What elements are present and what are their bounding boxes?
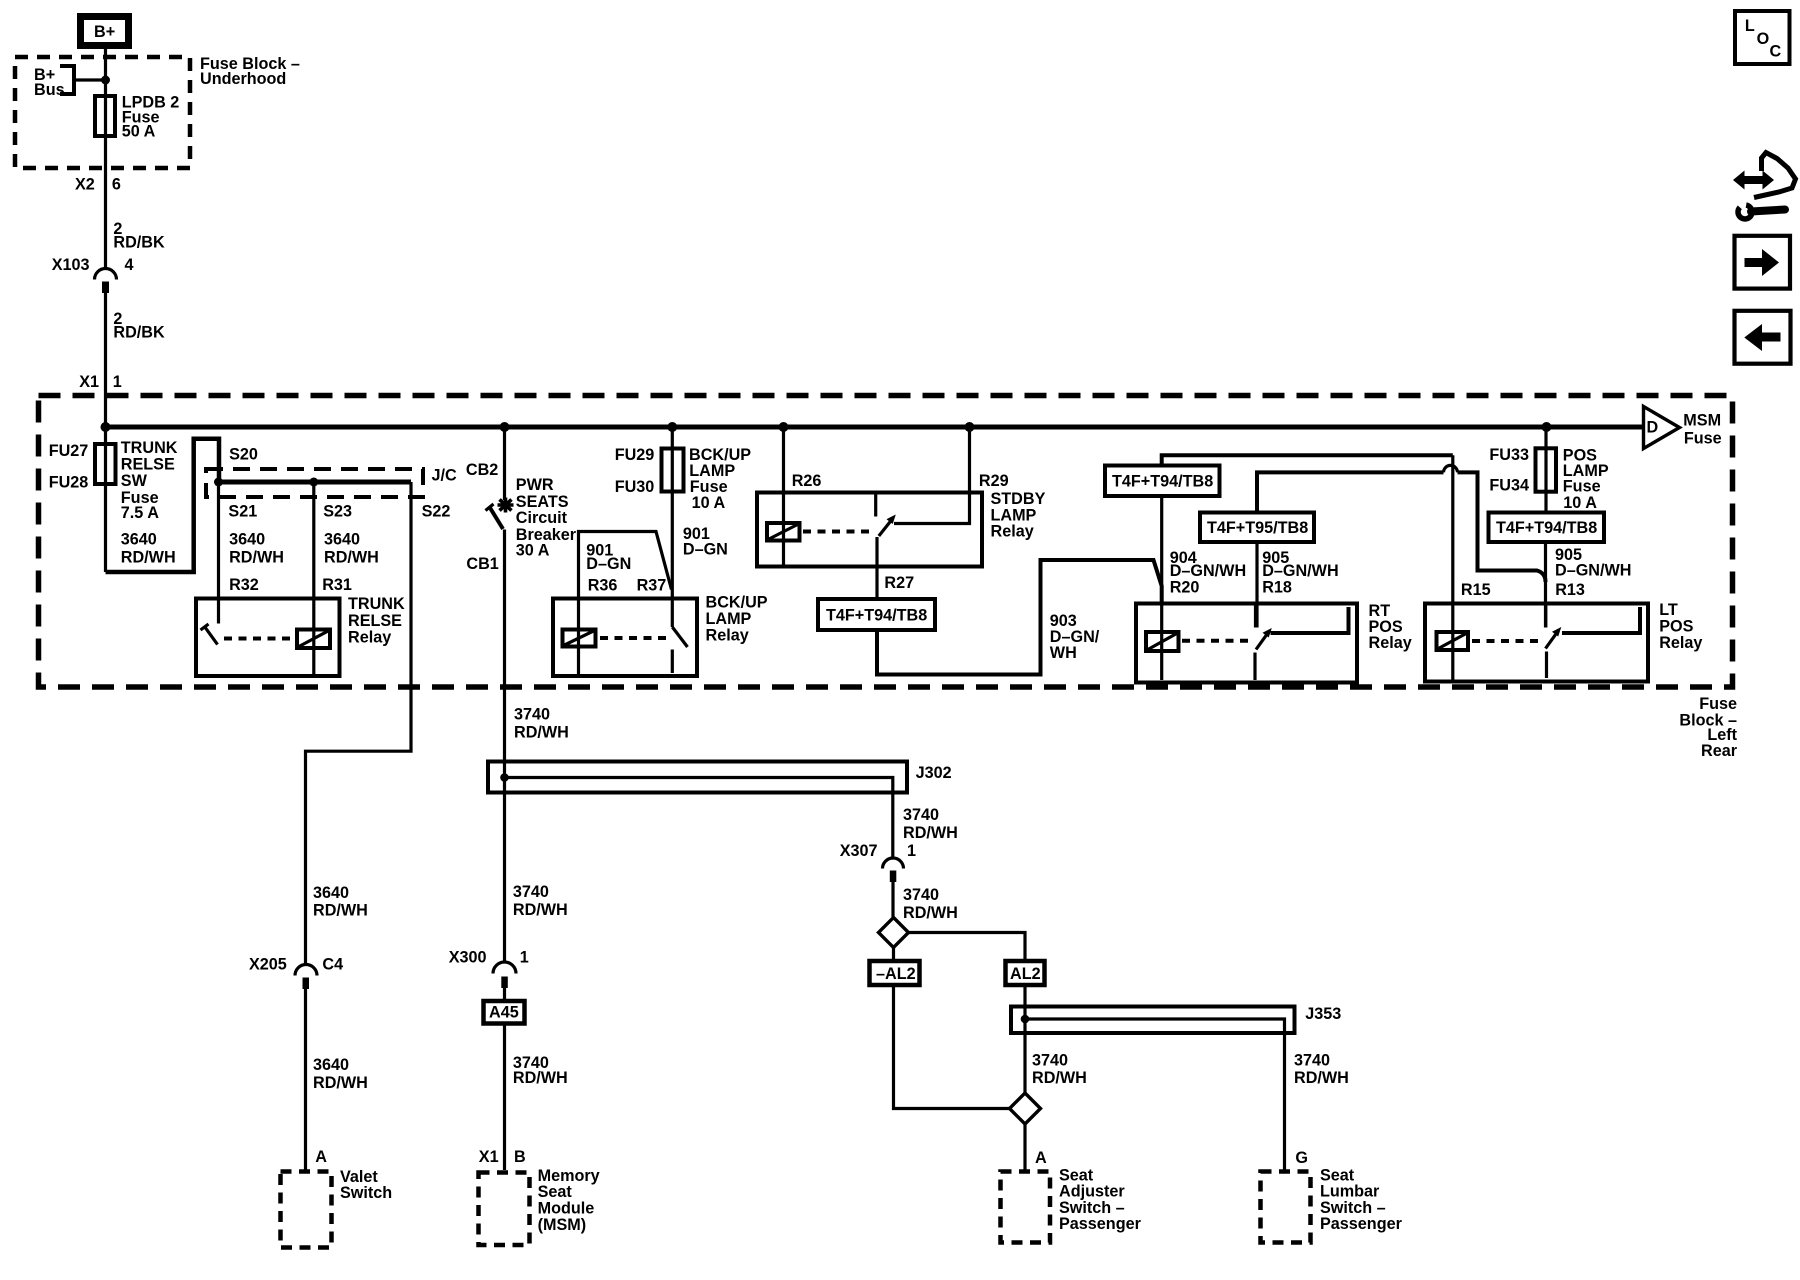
- B+ battery terminal box: [81, 17, 129, 46]
- wire label 3740 RD/WH (right of J302): [903, 806, 958, 842]
- Valet Switch dashed box: [281, 1172, 332, 1248]
- svg-text:R18: R18: [1262, 578, 1292, 596]
- svg-text:SW: SW: [121, 472, 148, 490]
- terminal box AL2: [1006, 961, 1045, 985]
- svg-text:LAMP: LAMP: [706, 610, 752, 628]
- R29 STDBY LAMP Relay label: [979, 472, 1046, 541]
- svg-text:3640: 3640: [313, 1056, 349, 1074]
- svg-text:T4F+T94/TB8: T4F+T94/TB8: [826, 607, 927, 625]
- wire bus down to relay pin R29: [894, 427, 970, 524]
- splice node S23: [309, 478, 318, 487]
- svg-text:Seat: Seat: [538, 1183, 573, 1201]
- node CB2 branch: [500, 422, 510, 432]
- splice pack J353: [1011, 1007, 1295, 1034]
- relay switch blade (BCK/UP): [672, 627, 687, 647]
- svg-text:3740: 3740: [514, 706, 550, 724]
- wire 903 D-GN/WH route to RT POS coil: [877, 560, 1162, 675]
- previous-page arrow box (left): [1735, 311, 1791, 364]
- svg-text:X103: X103: [52, 256, 90, 274]
- svg-text:RD/WH: RD/WH: [324, 548, 379, 566]
- wire diamond down to seat adjuster switch: [1023, 1124, 1026, 1170]
- svg-text:FU30: FU30: [615, 478, 655, 496]
- TRUNK RELSE Relay label: [348, 595, 405, 647]
- wire label 3640 RD/WH (below X205): [313, 1056, 368, 1092]
- wire diamond right to AL2: [909, 933, 1026, 960]
- svg-text:C4: C4: [322, 956, 343, 974]
- relay switch pivot wire (RT POS): [1253, 653, 1256, 681]
- wire bus down to STDBY relay coil R26: [782, 427, 785, 566]
- svg-text:X300: X300: [449, 949, 487, 967]
- svg-text:D–GN: D–GN: [586, 555, 631, 573]
- wire bus down to fuse FU29: [671, 427, 674, 627]
- relay fixed contact stub (STDBY): [874, 493, 877, 517]
- Fuse Block - Left Rear dashed box: [39, 396, 1733, 688]
- BCK/UP LAMP Fuse 10 A label: [689, 446, 751, 512]
- svg-text:Bus: Bus: [34, 81, 65, 99]
- svg-text:Adjuster: Adjuster: [1059, 1183, 1125, 1201]
- relay output to case top (LT POS): [1562, 607, 1640, 633]
- wire label 3640 RD/WH (S23 branch): [324, 531, 379, 567]
- wire 905 tag down to switch R13: [1544, 542, 1547, 628]
- Valet Switch label: [340, 1168, 392, 1202]
- B+ Bus label: [34, 66, 65, 99]
- Memory Seat Module (MSM) label: [538, 1167, 600, 1234]
- wire CB1 down to J302: [503, 530, 506, 963]
- svg-text:R26: R26: [792, 472, 822, 490]
- svg-text:Underhood: Underhood: [200, 70, 286, 88]
- svg-text:S23: S23: [323, 503, 352, 521]
- wire label 2 RD/BK: [113, 220, 165, 252]
- junction node on B+ feed: [101, 76, 110, 85]
- wire S23 down through relay coil R31: [312, 482, 315, 675]
- svg-text:R15: R15: [1461, 581, 1491, 599]
- pin labels R15 R13: [1461, 581, 1585, 599]
- wire R15 down into coil: [1451, 455, 1454, 680]
- wire label 3740 RD/WH (left, above diamond): [1032, 1051, 1087, 1087]
- pin label X2 6: [75, 176, 121, 194]
- pin label X1 1: [79, 373, 122, 391]
- pin labels FU29 FU30: [615, 446, 655, 496]
- BCK/UP LAMP Relay label: [706, 593, 768, 644]
- node R26 branch: [779, 422, 789, 432]
- wire 904 tag down to coil R20: [1160, 496, 1163, 602]
- wire A45 down to memory seat module: [503, 1025, 506, 1170]
- svg-text:BCK/UP: BCK/UP: [706, 593, 768, 611]
- relay switch blade (TRUNK): [205, 627, 218, 645]
- svg-text:3740: 3740: [903, 886, 939, 904]
- wire breakout to R36: [579, 532, 672, 600]
- svg-text:Switch: Switch: [340, 1184, 392, 1202]
- connector X103 pin 4: [52, 256, 134, 293]
- svg-text:Passenger: Passenger: [1059, 1215, 1142, 1233]
- svg-text:X1: X1: [79, 373, 99, 391]
- svg-text:CB1: CB1: [466, 555, 498, 573]
- relay coil (RT POS): [1146, 632, 1179, 651]
- pin labels FU27 FU28: [49, 442, 89, 491]
- svg-text:A: A: [315, 1148, 327, 1166]
- svg-text:3740: 3740: [903, 806, 939, 824]
- svg-text:3640: 3640: [121, 531, 157, 549]
- wire X103 down to fuse block X1 pin 1: [104, 293, 107, 427]
- svg-text:Lumbar: Lumbar: [1320, 1183, 1380, 1201]
- svg-text:10 A: 10 A: [692, 494, 726, 512]
- relay coil (STDBY): [767, 523, 800, 541]
- wire S21 down to relay pin R32: [217, 482, 220, 624]
- svg-text:Fuse: Fuse: [1684, 430, 1722, 448]
- svg-text:WH: WH: [1050, 644, 1077, 662]
- svg-text:50 A: 50 A: [122, 123, 156, 141]
- connector X307 pin 1: [840, 842, 916, 882]
- relay coil wire R36: [577, 599, 580, 675]
- svg-text:R36: R36: [588, 577, 618, 595]
- svg-text:A45: A45: [489, 1004, 519, 1022]
- wire label 3740 RD/WH (above X300): [513, 883, 568, 919]
- splice diamond (X307 branch): [879, 918, 909, 948]
- relay switch blade with arrow (STDBY): [879, 520, 892, 536]
- svg-text:L: L: [1745, 17, 1755, 35]
- labels CB2 / CB1: [466, 461, 499, 573]
- svg-text:C: C: [1770, 42, 1782, 60]
- wire label 3740 RD/WH (below A45): [513, 1054, 568, 1087]
- svg-text:D–GN: D–GN: [683, 540, 728, 558]
- net tag T4F+T95/TB8 (above R18): [1200, 513, 1314, 543]
- svg-text:RD/WH: RD/WH: [313, 1074, 368, 1092]
- svg-text:FU33: FU33: [1489, 446, 1529, 464]
- wire label 903 D-GN/ WH: [1050, 612, 1100, 662]
- svg-text:T4F+T94/TB8: T4F+T94/TB8: [1496, 519, 1597, 537]
- svg-text:6: 6: [112, 176, 121, 194]
- LT POS Relay box: [1425, 604, 1648, 682]
- svg-text:LAMP: LAMP: [991, 506, 1037, 524]
- wire J302 down to X307: [891, 793, 894, 859]
- MSM Fuse off-page triangle D: [1644, 407, 1722, 449]
- svg-text:30 A: 30 A: [516, 542, 550, 560]
- relay fixed contact stub (RT POS): [1254, 605, 1257, 628]
- splice pack J302: [488, 762, 907, 793]
- svg-text:1: 1: [907, 842, 916, 860]
- svg-text:Module: Module: [538, 1200, 595, 1218]
- pin labels R32 R31: [229, 576, 352, 594]
- svg-text:Switch –: Switch –: [1059, 1199, 1125, 1217]
- node in J302: [500, 773, 509, 782]
- svg-text:Seat: Seat: [1320, 1166, 1355, 1184]
- relay coil (LT POS): [1437, 632, 1469, 650]
- svg-text:3740: 3740: [1032, 1051, 1068, 1069]
- svg-text:CB2: CB2: [466, 461, 498, 479]
- svg-text:T4F+T94/TB8: T4F+T94/TB8: [1112, 473, 1213, 491]
- LT POS Relay label: [1659, 601, 1702, 652]
- wire -AL2 down and right to seat adjuster diamond: [894, 985, 1010, 1109]
- terminal box A45: [484, 1001, 525, 1024]
- connector X300 pin 1: [449, 949, 529, 989]
- Fuse Block - Underhood dashed box: [15, 57, 190, 168]
- svg-text:D–GN/WH: D–GN/WH: [1555, 562, 1631, 580]
- J353 internal wire: [1025, 1019, 1285, 1033]
- svg-text:Relay: Relay: [348, 629, 391, 647]
- svg-text:S21: S21: [228, 503, 257, 521]
- svg-text:7.5 A: 7.5 A: [121, 504, 159, 522]
- wire tag up and over to R15: [1162, 455, 1453, 465]
- wire J353 down to seat lumbar switch: [1283, 1033, 1286, 1170]
- svg-text:G: G: [1295, 1149, 1308, 1167]
- relay linkage dashed (LT POS): [1472, 639, 1538, 643]
- svg-text:RELSE: RELSE: [348, 612, 402, 630]
- svg-text:RD/WH: RD/WH: [121, 548, 176, 566]
- Seat Adjuster Switch dashed box: [1001, 1172, 1051, 1243]
- svg-text:FU28: FU28: [49, 473, 89, 491]
- svg-text:(MSM): (MSM): [538, 1216, 587, 1234]
- circuit breaker star contact: [498, 498, 514, 513]
- svg-text:R37: R37: [637, 577, 667, 595]
- svg-text:3640: 3640: [324, 531, 360, 549]
- svg-text:Passenger: Passenger: [1320, 1215, 1403, 1233]
- Seat Adjuster Switch - Passenger label: [1059, 1166, 1142, 1233]
- wire bus down to fuse FU33: [1544, 427, 1547, 513]
- B+ Bus bracket: [60, 66, 74, 94]
- svg-text:3740: 3740: [1294, 1051, 1330, 1069]
- wire bus down to circuit breaker CB2: [503, 427, 506, 500]
- svg-text:S22: S22: [422, 503, 451, 521]
- relay coil (TRUNK): [297, 630, 330, 649]
- relay coil wire R20: [1160, 602, 1163, 680]
- svg-text:RD/WH: RD/WH: [513, 1069, 568, 1087]
- svg-text:3640: 3640: [313, 884, 349, 902]
- BCK/UP LAMP Relay box: [553, 599, 697, 677]
- svg-text:10 A: 10 A: [1563, 494, 1597, 512]
- node FU33 branch: [1542, 422, 1552, 432]
- circuit breaker blade (PWR SEATS 30 A): [490, 507, 504, 529]
- svg-text:3640: 3640: [229, 531, 265, 549]
- splice diamond (seat adjuster): [1010, 1093, 1041, 1124]
- STDBY LAMP Relay box: [757, 493, 982, 567]
- svg-text:–AL2: –AL2: [876, 965, 916, 983]
- svg-text:RELSE: RELSE: [121, 455, 175, 473]
- svg-text:RD/WH: RD/WH: [513, 901, 568, 919]
- svg-text:J302: J302: [916, 764, 952, 782]
- relay coil (BCK/UP): [563, 630, 596, 647]
- svg-text:FU34: FU34: [1489, 477, 1529, 495]
- svg-text:4: 4: [125, 256, 134, 274]
- wire label 905 D-GN/WH R18: [1262, 549, 1338, 597]
- svg-text:B+: B+: [94, 23, 115, 41]
- svg-text:Circuit: Circuit: [516, 509, 568, 527]
- relay fixed contact stub (BCK/UP): [671, 650, 674, 674]
- svg-text:PWR: PWR: [516, 476, 554, 494]
- wire route fuse output to splice S20: [106, 439, 220, 572]
- node R29 branch: [965, 422, 975, 432]
- J/C junction connector dashed box: [206, 469, 423, 497]
- svg-text:RD/WH: RD/WH: [229, 548, 284, 566]
- svg-text:STDBY: STDBY: [991, 490, 1046, 508]
- relay switch blade with arrow (RT POS): [1256, 634, 1268, 650]
- relay switch blade with arrow (LT POS): [1546, 633, 1558, 649]
- wiring/repair icon (arrows and wrench): [1733, 153, 1796, 220]
- pin labels FU33 FU34: [1489, 446, 1529, 495]
- Seat Lumbar Switch dashed box: [1261, 1172, 1311, 1243]
- svg-text:RD/WH: RD/WH: [1294, 1069, 1349, 1087]
- wire label 3640 RD/WH (above X205): [313, 884, 368, 920]
- svg-text:MSM: MSM: [1683, 411, 1721, 429]
- wire diamond down to -AL2: [892, 948, 895, 960]
- connector X205 pin C4: [249, 956, 343, 989]
- svg-text:Switch –: Switch –: [1320, 1199, 1386, 1217]
- svg-text:B: B: [514, 1148, 526, 1166]
- splice node S21: [214, 478, 223, 487]
- svg-text:A: A: [1035, 1149, 1047, 1167]
- svg-text:TRUNK: TRUNK: [348, 595, 405, 613]
- svg-text:R32: R32: [229, 576, 259, 594]
- svg-text:R29: R29: [979, 472, 1009, 490]
- Seat Lumbar Switch - Passenger label: [1320, 1166, 1403, 1233]
- fuse LPDB 2 50 A: [95, 96, 115, 136]
- wire X205 down to valet switch: [304, 989, 307, 1170]
- svg-text:SEATS: SEATS: [516, 493, 569, 511]
- svg-text:Fuse: Fuse: [1699, 695, 1737, 713]
- wire from B+ bus bracket to main feed: [74, 78, 106, 81]
- svg-text:Relay: Relay: [1659, 634, 1702, 652]
- net tag T4F+T94/TB8 (below R27): [818, 599, 935, 630]
- wire X300 to A45: [503, 988, 506, 999]
- wire bus down through TRUNK RELSE SW fuse: [104, 427, 107, 572]
- svg-text:3740: 3740: [513, 883, 549, 901]
- svg-text:Relay: Relay: [991, 523, 1034, 541]
- svg-text:T4F+T95/TB8: T4F+T95/TB8: [1207, 519, 1308, 537]
- wire S22 down from J/C to valet branch: [306, 482, 412, 965]
- svg-text:POS: POS: [1659, 618, 1693, 636]
- Fuse Block - Left Rear label: [1679, 695, 1737, 760]
- svg-text:D–GN/WH: D–GN/WH: [1170, 562, 1246, 580]
- J302 internal wire: [505, 778, 893, 793]
- relay switch output wire R27: [875, 537, 878, 599]
- svg-text:Valet: Valet: [340, 1168, 378, 1186]
- wire label 3740 RD/WH (below X307): [903, 886, 958, 922]
- relay linkage dashed (BCK/UP): [600, 636, 667, 640]
- relay output to case top (RT POS): [1271, 607, 1349, 633]
- svg-text:O: O: [1757, 30, 1770, 48]
- svg-text:AL2: AL2: [1010, 965, 1041, 983]
- svg-text:Fuse: Fuse: [1563, 477, 1601, 495]
- relay linkage dashed (RT POS): [1182, 639, 1249, 643]
- svg-text:D–GN/WH: D–GN/WH: [1262, 562, 1338, 580]
- wire label 2 RD/BK: [113, 310, 165, 342]
- svg-text:D: D: [1647, 419, 1659, 437]
- node at bus corner: [101, 422, 111, 432]
- wire label 901 D-GN (fuse output): [683, 525, 728, 559]
- svg-text:RD/WH: RD/WH: [903, 904, 958, 922]
- terminal box -AL2: [870, 961, 920, 985]
- Memory Seat Module dashed box: [479, 1173, 530, 1246]
- svg-text:BCK/UP: BCK/UP: [689, 446, 751, 464]
- wire label 3640 RD/WH (S21 branch): [229, 531, 284, 567]
- RT POS Relay box: [1136, 604, 1357, 683]
- svg-text:FU29: FU29: [615, 446, 655, 464]
- TRUNK RELSE SW Fuse 7.5 A label: [121, 439, 178, 522]
- fuse TRUNK RELSE SW 7.5 A (FU27/FU28): [95, 444, 116, 484]
- svg-text:1: 1: [113, 373, 122, 391]
- svg-text:RD/WH: RD/WH: [903, 824, 958, 842]
- POS LAMP Fuse 10 A label: [1563, 446, 1609, 512]
- svg-text:X205: X205: [249, 956, 287, 974]
- relay fixed contact stub (LT POS): [1544, 605, 1547, 628]
- LOC legend box: [1735, 11, 1790, 64]
- wire X307 down to splice diamond: [891, 882, 894, 918]
- next-page arrow box (right): [1735, 236, 1791, 289]
- relay switch pivot wire (LT POS): [1545, 652, 1548, 679]
- svg-text:RD/WH: RD/WH: [1032, 1069, 1087, 1087]
- splice labels S21 S23 S22: [228, 503, 450, 521]
- svg-text:LT: LT: [1659, 601, 1678, 619]
- svg-text:Memory: Memory: [538, 1167, 600, 1185]
- svg-text:X2: X2: [75, 176, 95, 194]
- wire label 905 D-GN/WH: [1555, 546, 1631, 580]
- svg-text:J/C: J/C: [432, 467, 458, 485]
- wire hop over R15 line: [1444, 465, 1458, 472]
- relay linkage dashed (STDBY): [803, 530, 871, 534]
- wire AL2 down through J353: [1023, 985, 1026, 1094]
- pin label X1 B: [479, 1148, 526, 1166]
- node FU29 branch: [667, 422, 677, 432]
- svg-text:RD/BK: RD/BK: [113, 324, 165, 342]
- svg-text:RD/WH: RD/WH: [514, 724, 569, 742]
- wire label 3740 RD/WH (right branch): [1294, 1051, 1349, 1087]
- svg-text:Seat: Seat: [1059, 1166, 1094, 1184]
- node in J353: [1021, 1015, 1030, 1024]
- J/C internal bus wire: [219, 480, 412, 485]
- wire 905 up from tag, right, down to LT switch R13: [1257, 472, 1546, 582]
- svg-text:Relay: Relay: [706, 627, 749, 645]
- wire label 901 D-GN (R36 branch): [586, 541, 631, 573]
- wire label 3640 RD/WH: [121, 531, 176, 567]
- svg-text:RD/BK: RD/BK: [113, 234, 165, 252]
- svg-text:R20: R20: [1170, 578, 1200, 596]
- svg-text:R27: R27: [884, 574, 914, 592]
- net tag T4F+T94/TB8 (above R20): [1105, 466, 1220, 497]
- fuse BCK/UP LAMP 10 A (FU29/FU30): [662, 449, 684, 492]
- svg-text:Relay: Relay: [1369, 634, 1412, 652]
- svg-text:J353: J353: [1305, 1005, 1341, 1023]
- svg-text:S20: S20: [229, 445, 258, 463]
- LPDB 2 Fuse 50 A label: [122, 93, 180, 140]
- wire label 3740 RD/WH (below fuse block): [514, 706, 569, 742]
- relay linkage dashed (TRUNK): [224, 637, 295, 641]
- svg-text:FU27: FU27: [49, 442, 89, 460]
- svg-text:X1: X1: [479, 1148, 499, 1166]
- net tag T4F+T94/TB8 (above R13): [1489, 513, 1605, 543]
- main bus wire inside fuse block: [106, 425, 1643, 430]
- svg-text:R31: R31: [322, 576, 352, 594]
- wire 905 tag down to switch R18: [1255, 542, 1258, 628]
- TRUNK RELSE Relay box: [196, 599, 340, 677]
- fuse POS LAMP 10 A (FU33/FU34): [1536, 448, 1557, 491]
- PWR SEATS Circuit Breaker 30 A label: [516, 476, 577, 559]
- svg-text:Rear: Rear: [1701, 742, 1738, 760]
- svg-text:R13: R13: [1555, 581, 1585, 599]
- wire B+ box down to fuse LPDB 2: [104, 46, 107, 269]
- Fuse Block - Underhood label: [200, 55, 300, 88]
- wire label 904 D-GN/WH R20: [1170, 549, 1246, 597]
- svg-text:RD/WH: RD/WH: [313, 902, 368, 920]
- RT POS Relay label: [1369, 602, 1412, 652]
- pin labels R36 R37: [588, 577, 667, 595]
- svg-text:1: 1: [520, 949, 529, 967]
- svg-text:X307: X307: [840, 842, 878, 860]
